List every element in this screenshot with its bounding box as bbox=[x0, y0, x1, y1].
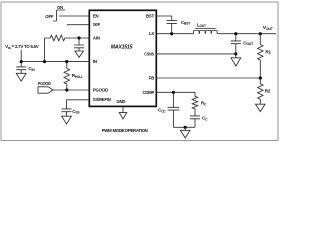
svg-text:EN: EN bbox=[93, 14, 99, 19]
svg-text:MAX1515: MAX1515 bbox=[111, 44, 133, 50]
svg-text:CSNS: CSNS bbox=[144, 51, 154, 56]
svg-text:CSS: CSS bbox=[72, 109, 80, 115]
svg-text:CCC: CCC bbox=[158, 108, 166, 114]
svg-text:COUT: COUT bbox=[243, 40, 254, 46]
svg-text:CBST: CBST bbox=[181, 20, 190, 26]
svg-text:LX: LX bbox=[149, 31, 154, 36]
svg-text:PGOOD: PGOOD bbox=[93, 88, 108, 93]
svg-text:R2: R2 bbox=[265, 88, 271, 93]
svg-text:BST: BST bbox=[146, 14, 155, 19]
svg-text:CIN: CIN bbox=[28, 66, 35, 72]
svg-text:VIN = 2.7V TO 5.5V: VIN = 2.7V TO 5.5V bbox=[5, 44, 39, 50]
svg-text:PGOOD: PGOOD bbox=[38, 81, 51, 86]
svg-text:MODE: MODE bbox=[113, 128, 125, 133]
svg-text:VOUT: VOUT bbox=[263, 25, 274, 31]
svg-text:CC: CC bbox=[202, 116, 208, 122]
svg-text:R1: R1 bbox=[265, 50, 271, 55]
svg-text:GND: GND bbox=[116, 99, 125, 104]
svg-text:OPERATION: OPERATION bbox=[125, 128, 148, 133]
svg-text:ON: ON bbox=[57, 5, 63, 10]
svg-text:FB: FB bbox=[149, 76, 154, 81]
svg-text:LOUT: LOUT bbox=[197, 22, 206, 28]
svg-text:RC: RC bbox=[201, 101, 207, 107]
svg-text:SS/REFIN: SS/REFIN bbox=[93, 97, 111, 102]
svg-text:RPULL: RPULL bbox=[72, 73, 83, 79]
svg-text:PWM: PWM bbox=[102, 128, 112, 133]
svg-text:AIN: AIN bbox=[93, 36, 100, 41]
svg-text:SKIP: SKIP bbox=[93, 22, 100, 27]
svg-text:IN: IN bbox=[93, 59, 97, 64]
svg-text:COMP: COMP bbox=[143, 90, 155, 95]
svg-text:OFF: OFF bbox=[45, 14, 54, 19]
